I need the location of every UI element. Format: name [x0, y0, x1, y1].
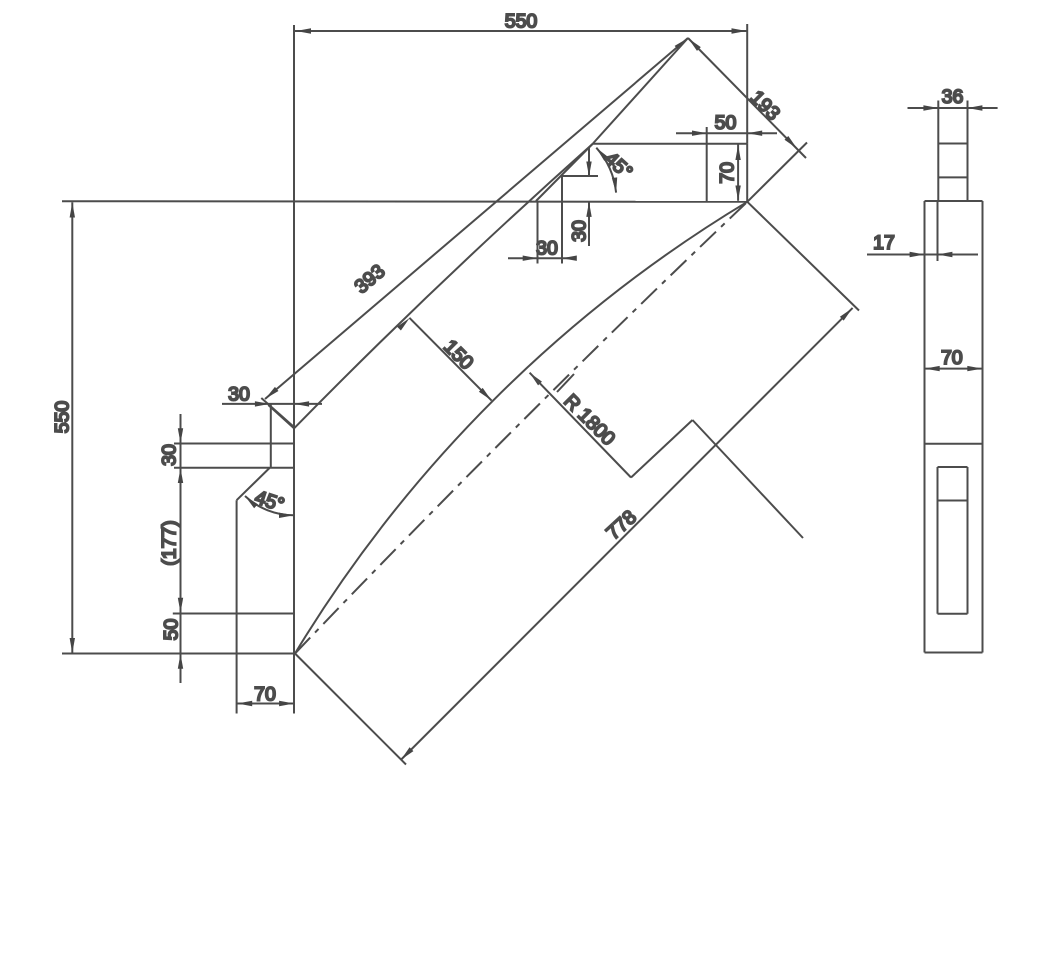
dimension 45 deg (right): tangent ray	[536, 144, 593, 201]
side view: body mid line	[925, 443, 983, 445]
side view: body top edge	[925, 200, 983, 202]
dimension 30 (horiz, right step): extension x=537.5	[537, 201, 539, 263]
dimension 30 (left top): line	[222, 403, 322, 405]
dimension 550 (left): arrows	[70, 203, 75, 218]
dimension 393: line	[265, 38, 688, 399]
dimension 45 deg (left): arc	[245, 496, 294, 515]
dimension 550 (left): line	[71, 202, 73, 653]
dimension 30 (vert, right step): line upper	[588, 148, 590, 177]
dimension 50 (top right): line	[676, 132, 777, 134]
reference line y=201 (top of 550 height)	[62, 200, 747, 203]
part outline: bottom long edge (arc)	[295, 202, 747, 654]
dimension 30 (left top): arrows	[255, 401, 270, 406]
dimension 17: arrows	[910, 252, 925, 257]
side view: body left edge	[924, 201, 926, 653]
extension line x=747.2 (right end)	[746, 24, 748, 144]
dimension 30 (horiz, right step): line	[508, 257, 572, 259]
dimension 50 (top right): arrows	[692, 131, 707, 136]
reference line y=653.5 (bottom of 550 height)	[62, 653, 295, 655]
side view: slot right edge	[967, 467, 969, 614]
dimension 193: arrows	[686, 36, 700, 50]
dimension 50 (top right): extension line	[706, 127, 708, 201]
dimension 193: extension from right tip	[747, 143, 807, 202]
side view: column rung 1	[938, 143, 967, 145]
extension line x=294 below tip	[293, 654, 295, 714]
part outline: short vertical x=270.8	[270, 404, 272, 468]
svg-text:70: 70	[941, 347, 963, 369]
part outline: ledge line y=467.8	[174, 467, 294, 469]
svg-text:36: 36	[942, 86, 964, 108]
dimension 45 deg (right): arc	[596, 148, 616, 193]
extension line x=294 above part	[293, 25, 295, 428]
dimension 150: line	[409, 318, 491, 401]
part outline: right end edge	[746, 144, 748, 202]
part outline: top ledge line y=443.5	[174, 443, 294, 445]
reference line y=613.5	[173, 613, 294, 615]
dimension 778: line	[401, 308, 853, 760]
dimension 30 (vert, right step): extension y=176	[561, 175, 598, 177]
svg-text:550: 550	[52, 401, 74, 434]
radius leader R1800: arrow	[528, 371, 542, 386]
dimension 193: line	[688, 38, 806, 158]
svg-text:30: 30	[228, 384, 250, 406]
dimension 45 deg (left): arrows	[279, 513, 294, 518]
svg-text:70: 70	[254, 684, 276, 706]
svg-text:(177): (177)	[159, 520, 181, 566]
side view: slot left edge	[937, 467, 939, 614]
side view: body right edge	[982, 201, 984, 653]
dimension 17: line	[867, 254, 978, 256]
part outline: upper long edge (arc)	[294, 144, 593, 428]
svg-text:70: 70	[716, 162, 738, 184]
dimension 778: arrows	[399, 747, 413, 761]
extension line y=443.5 left	[174, 443, 181, 445]
radius leader R1800: tick	[557, 374, 574, 392]
dimension 393: arrows	[264, 387, 279, 401]
side view: narrow column right edge	[967, 101, 969, 202]
svg-text:50: 50	[161, 619, 183, 641]
dimension 30 (vert, right step): line lower	[588, 202, 590, 247]
dimension 30 (horiz, right step): arrows	[523, 256, 538, 261]
svg-text:30: 30	[159, 444, 181, 466]
dimension 70 (bottom): line	[237, 703, 294, 705]
part outline: 45 deg chamfer lower left	[237, 468, 270, 500]
dimension 778: extension from left tip	[295, 654, 406, 765]
bend centerline (dash-dot arc R 1800)	[295, 202, 747, 654]
part outline: top edge (right end)	[593, 143, 748, 145]
radius leader R1800: segment 1	[530, 373, 631, 478]
dimension (177): arrows	[178, 598, 183, 613]
side view: slot inner line	[938, 500, 968, 502]
side view: narrow column left edge	[937, 101, 939, 202]
dimension 36: arrows	[923, 105, 938, 110]
dimension 150: arrows	[397, 316, 411, 330]
dimension 36: line	[908, 107, 998, 109]
svg-text:30: 30	[536, 238, 558, 260]
dimension 193: extension from corner A	[593, 38, 689, 144]
dimension 70 (right end): arrows	[735, 145, 740, 160]
svg-text:550: 550	[505, 11, 538, 33]
radius leader R1800: segment 3	[693, 420, 804, 538]
dimension 393: extension from apex	[261, 398, 293, 427]
dimension 30 (left): dim line	[180, 414, 182, 683]
dimension 550 (top): line	[295, 30, 747, 32]
dimension 70 (side view): line	[925, 368, 983, 370]
side view: body bottom edge	[925, 652, 983, 654]
dimension 30 (vert, right step): arrows	[586, 162, 591, 177]
dimension 70 (bottom): arrows	[237, 701, 252, 706]
dimension 550 (top): arrows	[296, 28, 311, 33]
side view: column rung 2	[938, 176, 967, 178]
svg-text:50: 50	[715, 112, 737, 134]
part outline: left end vertical edge	[293, 428, 295, 653]
svg-text:30: 30	[569, 220, 591, 242]
side view: inner wall line	[937, 201, 939, 261]
side view: slot bottom edge	[938, 613, 968, 615]
side view: slot top edge	[938, 466, 968, 468]
part outline: 45 deg chamfer at left apex	[268, 405, 294, 428]
dimension 30 (left): arrows	[178, 428, 183, 443]
radius leader R1800: segment 2	[631, 420, 693, 478]
dimension 778: extension from right tip	[747, 202, 859, 311]
dimension 50 (left): arrows	[178, 654, 183, 669]
dimension 70 (right end): line	[737, 145, 739, 201]
dimension 45 deg (right): arrows	[612, 177, 619, 192]
part outline: left edge x=236.6	[236, 500, 238, 713]
dimension 70 (side view): arrows	[925, 366, 940, 371]
svg-text:17: 17	[873, 232, 895, 254]
dimension 30 (horiz, right step): extension x=562	[561, 176, 563, 264]
